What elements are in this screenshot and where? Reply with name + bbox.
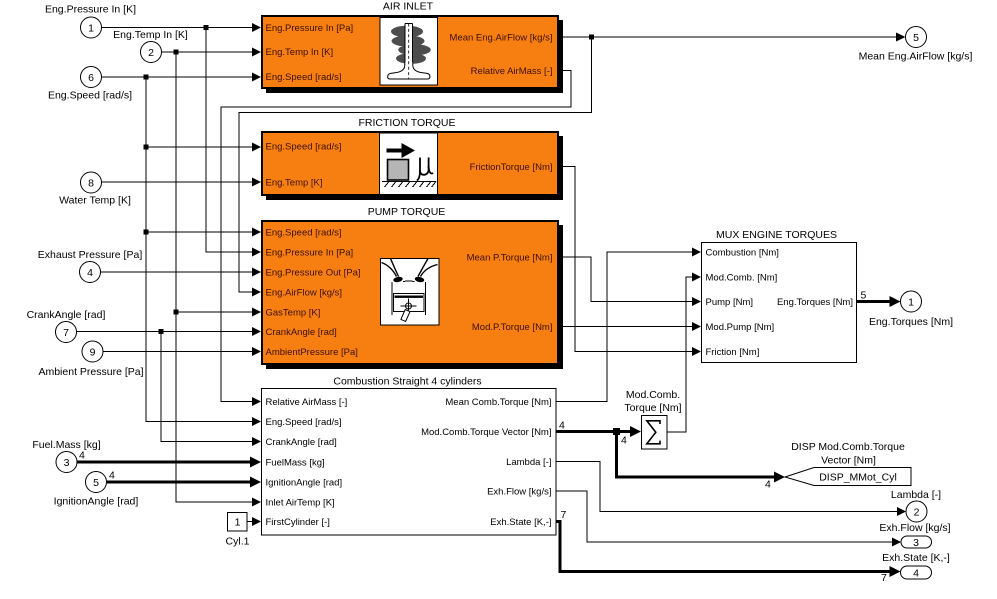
- svg-text:AIR INLET: AIR INLET: [383, 1, 434, 13]
- svg-text:FRICTION TORQUE: FRICTION TORQUE: [358, 117, 455, 129]
- wire port6 to AIR INLET Eng.Speed: [101, 73, 261, 82]
- svg-text:IgnitionAngle [rad]: IgnitionAngle [rad]: [54, 495, 139, 507]
- wire Eng.Speed to PUMP: [146, 228, 261, 237]
- svg-text:5: 5: [913, 32, 919, 44]
- block Combustion Straight 4 cylinders: [262, 389, 557, 536]
- svg-text:Eng.Pressure In [K]: Eng.Pressure In [K]: [45, 3, 136, 15]
- svg-text:PUMP TORQUE: PUMP TORQUE: [368, 206, 446, 218]
- inport 9: [82, 341, 103, 362]
- svg-text:Torque [Nm]: Torque [Nm]: [624, 402, 681, 414]
- outport 3: [901, 536, 932, 549]
- svg-text:Friction [Nm]: Friction [Nm]: [706, 347, 760, 358]
- svg-text:Combustion [Nm]: Combustion [Nm]: [706, 247, 779, 258]
- wire Mean Eng.AirFlow branch to PUMP Eng.AirFlow: [239, 37, 592, 297]
- block AIR INLET shadow: [266, 20, 563, 93]
- svg-text:4: 4: [79, 450, 85, 462]
- wire CrankAngle vertical to Combustion: [161, 332, 261, 447]
- svg-text:Lambda [-]: Lambda [-]: [506, 457, 551, 468]
- wire Eng.Speed vertical: [144, 77, 262, 426]
- block FRICTION TORQUE: [262, 132, 558, 195]
- svg-text:6: 6: [88, 72, 94, 84]
- inport 5: [86, 472, 107, 493]
- block FRICTION TORQUE shadow: [266, 136, 563, 200]
- svg-text:Exh.State [K,-]: Exh.State [K,-]: [490, 517, 551, 528]
- svg-text:2: 2: [148, 47, 154, 59]
- wire Eng.Temp to PUMP GasTemp: [176, 308, 261, 317]
- svg-text:Relative AirMass [-]: Relative AirMass [-]: [266, 397, 348, 408]
- inport 8: [81, 172, 102, 193]
- block Sum: [642, 416, 668, 450]
- wire port7 CrankAngle to PUMP: [77, 327, 261, 336]
- wire Eng.Speed to FRICTION: [146, 143, 261, 152]
- svg-text:4: 4: [559, 420, 565, 432]
- svg-text:Relative AirMass [-]: Relative AirMass [-]: [471, 66, 553, 77]
- svg-text:FuelMass [kg]: FuelMass [kg]: [266, 457, 325, 468]
- svg-text:Ambient Pressure [Pa]: Ambient Pressure [Pa]: [38, 366, 143, 378]
- block AIR INLET: [262, 16, 558, 88]
- svg-text:AmbientPressure [Pa]: AmbientPressure [Pa]: [266, 347, 358, 358]
- icon valve AIR INLET: [380, 18, 438, 86]
- svg-text:1: 1: [908, 296, 914, 308]
- outport 1: [901, 291, 922, 312]
- outport 5: [906, 27, 927, 48]
- svg-text:Eng.Speed [rad/s]: Eng.Speed [rad/s]: [266, 72, 342, 83]
- svg-text:7: 7: [561, 509, 567, 521]
- svg-text:Combustion Straight 4 cylinder: Combustion Straight 4 cylinders: [333, 375, 481, 387]
- wire port1 to AIR INLET Eng.Pressure In: [101, 23, 261, 32]
- svg-text:Vector [Nm]: Vector [Nm]: [821, 454, 876, 466]
- svg-text:Mod.Pump [Nm]: Mod.Pump [Nm]: [706, 322, 775, 333]
- svg-text:FirstCylinder [-]: FirstCylinder [-]: [266, 517, 330, 528]
- svg-text:Eng.Speed [rad/s]: Eng.Speed [rad/s]: [266, 141, 342, 152]
- block constant Cyl.1: [228, 513, 248, 532]
- svg-text:Pump [Nm]: Pump [Nm]: [706, 297, 754, 308]
- block DISP_MMot_Cyl tag: [785, 468, 911, 486]
- svg-text:Inlet AirTemp [K]: Inlet AirTemp [K]: [266, 497, 335, 508]
- svg-text:8: 8: [88, 177, 94, 189]
- svg-text:Mod.Comb.Torque Vector [Nm]: Mod.Comb.Torque Vector [Nm]: [421, 427, 551, 438]
- svg-text:Eng.Speed [rad/s]: Eng.Speed [rad/s]: [48, 89, 132, 101]
- svg-text:Cyl.1: Cyl.1: [226, 535, 250, 547]
- inport 2: [141, 42, 162, 63]
- svg-text:4: 4: [87, 267, 93, 279]
- svg-text:Mean Comb.Torque [Nm]: Mean Comb.Torque [Nm]: [445, 397, 551, 408]
- wire port8 Water Temp to FRICTION Eng.Temp: [101, 178, 261, 187]
- svg-text:Eng.Speed [rad/s]: Eng.Speed [rad/s]: [266, 227, 342, 238]
- outport 4: [901, 566, 932, 579]
- svg-text:Exhaust Pressure [Pa]: Exhaust Pressure [Pa]: [38, 249, 143, 261]
- outport 2: [906, 501, 927, 522]
- svg-text:GasTemp [K]: GasTemp [K]: [266, 307, 321, 318]
- svg-text:4: 4: [621, 435, 627, 447]
- svg-text:1: 1: [235, 517, 241, 529]
- wire MUX Eng.Torques thick to port1 out: [857, 296, 901, 307]
- svg-text:Eng.Torques [Nm]: Eng.Torques [Nm]: [869, 316, 953, 328]
- svg-text:5: 5: [93, 477, 99, 489]
- svg-text:Eng.Speed [rad/s]: Eng.Speed [rad/s]: [266, 417, 342, 428]
- svg-text:4: 4: [109, 470, 115, 482]
- wire Combustion Lambda to port2 out: [556, 462, 906, 517]
- wire Combustion Mean Comb.Torque to MUX Combustion: [556, 248, 701, 402]
- svg-text:7: 7: [63, 327, 69, 339]
- svg-text:Mean Eng.AirFlow [kg/s]: Mean Eng.AirFlow [kg/s]: [450, 32, 553, 43]
- svg-text:DISP_MMot_Cyl: DISP_MMot_Cyl: [819, 471, 897, 483]
- svg-text:Exh.State [K,-]: Exh.State [K,-]: [882, 552, 950, 564]
- inport 4: [80, 262, 101, 283]
- svg-text:Eng.Torques [Nm]: Eng.Torques [Nm]: [777, 297, 853, 308]
- inport 6: [81, 67, 102, 88]
- wire port4 Exhaust Pressure to PUMP Eng.Pressure Out: [100, 268, 261, 277]
- inport 7: [56, 322, 77, 343]
- svg-text:Eng.Temp In [K]: Eng.Temp In [K]: [113, 29, 188, 41]
- wire Combustion Mod.Comb.Torque Vector thick to Sum: [556, 426, 641, 437]
- svg-text:7: 7: [881, 572, 887, 584]
- block MUX ENGINE TORQUES: [702, 243, 857, 363]
- svg-text:CrankAngle [rad]: CrankAngle [rad]: [266, 437, 337, 448]
- svg-text:Mod.Comb.: Mod.Comb.: [626, 389, 680, 401]
- wire FRICTION FrictionTorque to MUX Friction: [559, 167, 701, 357]
- svg-text:Eng.Temp [K]: Eng.Temp [K]: [266, 177, 323, 188]
- svg-text:Mean P.Torque [Nm]: Mean P.Torque [Nm]: [467, 252, 553, 263]
- svg-text:2: 2: [914, 506, 920, 518]
- svg-text:CrankAngle [rad]: CrankAngle [rad]: [27, 309, 106, 321]
- wire PUMP Mod.P.Torque to MUX Mod.Pump: [559, 322, 701, 331]
- svg-text:FrictionTorque [Nm]: FrictionTorque [Nm]: [470, 162, 553, 173]
- svg-text:Eng.Pressure Out [Pa]: Eng.Pressure Out [Pa]: [266, 267, 361, 278]
- block PUMP TORQUE shadow: [266, 225, 563, 369]
- wire port5 IgnitionAngle thick to Combustion IgnitionAngle: [107, 477, 261, 488]
- wire constant Cyl.1 to Combustion FirstCylinder: [247, 517, 261, 526]
- svg-text:MUX ENGINE TORQUES: MUX ENGINE TORQUES: [716, 229, 837, 241]
- svg-text:4: 4: [765, 479, 771, 491]
- wire port9 Ambient Pressure to PUMP: [103, 347, 261, 356]
- svg-text:CrankAngle [rad]: CrankAngle [rad]: [266, 327, 337, 338]
- wire Combustion Exh.Flow to port3 out: [556, 491, 901, 547]
- svg-text:Eng.Temp In [K]: Eng.Temp In [K]: [266, 47, 334, 58]
- inport 1: [81, 17, 102, 38]
- svg-text:Mean Eng.AirFlow [kg/s]: Mean Eng.AirFlow [kg/s]: [859, 50, 973, 62]
- wire PUMP Mean P.Torque to MUX Pump: [559, 257, 701, 306]
- wire Eng.Temp vertical: [174, 52, 262, 507]
- wire Mod.Comb.Torque Vector branch thick to DISP: [617, 432, 786, 483]
- svg-text:Water Temp [K]: Water Temp [K]: [59, 194, 131, 206]
- inport 3: [56, 452, 77, 473]
- wire AIR INLET Mean Eng.AirFlow to port5 out: [559, 33, 906, 42]
- wire Eng.Pressure In vertical to PUMP: [206, 28, 261, 257]
- svg-text:Mod.P.Torque [Nm]: Mod.P.Torque [Nm]: [472, 322, 553, 333]
- svg-text:3: 3: [64, 457, 70, 469]
- block PUMP TORQUE: [262, 221, 558, 364]
- svg-text:Fuel.Mass [kg]: Fuel.Mass [kg]: [32, 439, 100, 451]
- svg-text:1: 1: [88, 22, 94, 34]
- svg-text:Eng.Pressure In [Pa]: Eng.Pressure In [Pa]: [266, 247, 354, 258]
- wire AIR INLET Relative AirMass to Combustion: [221, 71, 571, 407]
- svg-text:4: 4: [913, 567, 919, 579]
- svg-text:IgnitionAngle [rad]: IgnitionAngle [rad]: [266, 477, 343, 488]
- svg-text:Mod.Comb. [Nm]: Mod.Comb. [Nm]: [706, 272, 778, 283]
- wire port2 to AIR INLET Eng.Temp In: [161, 48, 261, 57]
- svg-text:DISP Mod.Comb.Torque: DISP Mod.Comb.Torque: [791, 441, 905, 453]
- icon friction FRICTION TORQUE: [380, 133, 438, 195]
- wire Combustion Exh.State thick to port4 out: [556, 522, 901, 578]
- svg-text:Lambda [-]: Lambda [-]: [891, 489, 941, 501]
- svg-text:Eng.Pressure In [Pa]: Eng.Pressure In [Pa]: [266, 23, 354, 34]
- icon piston PUMP TORQUE: [381, 259, 440, 326]
- svg-text:3: 3: [913, 537, 919, 549]
- svg-text:Eng.AirFlow [kg/s]: Eng.AirFlow [kg/s]: [266, 287, 343, 298]
- wire port3 Fuel.Mass thick to Combustion FuelMass: [77, 457, 261, 468]
- svg-text:5: 5: [861, 290, 867, 302]
- wire Sum output to MUX Mod.Comb.: [667, 273, 701, 433]
- svg-text:Exh.Flow [kg/s]: Exh.Flow [kg/s]: [487, 486, 551, 497]
- svg-text:9: 9: [90, 346, 96, 358]
- svg-text:Exh.Flow [kg/s]: Exh.Flow [kg/s]: [879, 522, 950, 534]
